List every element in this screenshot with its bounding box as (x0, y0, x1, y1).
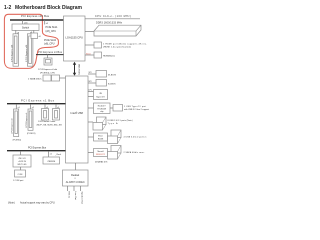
svg-text:Intel® Z68: Intel® Z68 (70, 111, 83, 115)
svg-text:1-2: 1-2 (4, 5, 11, 11)
wire: drop boxC (44, 104, 46, 109)
svg-text:PCIE Slot2: PCIE Slot2 (44, 39, 57, 42)
svg-text:(M2P_SB, M2M_SB)_SB: (M2P_SB, M2M_SB)_SB (37, 125, 63, 127)
wire: CPU to DVI box (85, 54, 94, 56)
svg-text:Line Out: Line Out (74, 192, 77, 201)
svg-text:Marvell: Marvell (97, 150, 104, 153)
svg-text:x8: x8 (39, 36, 41, 38)
wire: clock line (85, 18, 140, 20)
wire: chipset to audio (75, 163, 77, 170)
DVI port box (94, 52, 102, 58)
switch U1 (12, 24, 39, 30)
svg-text:DMI 20Gb/s: DMI 20Gb/s (78, 64, 80, 75)
red annotation loop (4, 14, 58, 68)
svg-text:(x8)_CPU: (x8)_CPU (46, 30, 57, 33)
wire: chipset to USB3 hub (88, 136, 94, 138)
svg-text:RTL8111E: RTL8111E (97, 108, 106, 110)
svg-text:Motherboard Block Diagram: Motherboard Block Diagram (15, 5, 83, 11)
wire: tick to x4 slot (47, 55, 49, 58)
svg-text:SPI: SPI (89, 72, 92, 74)
audio codec box (63, 170, 89, 186)
svg-text:Type A: Type A (108, 122, 119, 125)
USB 3.0 stack (108, 130, 122, 144)
svg-text:HDMI(Note): HDMI(Note) (103, 54, 115, 57)
wire: PCIe x16 bus to CPU (10, 19, 64, 21)
svg-text:iT8892E: iT8892E (47, 161, 56, 163)
svg-text:(x8)_CPU: (x8)_CPU (44, 43, 55, 46)
wire: x4 bus (36, 54, 64, 56)
svg-text:chip: chip (100, 111, 103, 113)
PCIe slot1 (11, 34, 19, 66)
super I/O box (13, 155, 31, 167)
svg-text:1 USB Type-C® port: 1 USB Type-C® port (124, 105, 146, 108)
PCIe slot2 (25, 34, 33, 66)
svg-text:_Clock: _Clock (54, 154, 61, 156)
wire: chipset to LAN chip (88, 107, 94, 109)
SATA connector A (43, 75, 51, 81)
USB3 hub box (94, 133, 108, 141)
wire: switch to slot1 (15, 30, 17, 33)
wire: CPU to HDMI box (85, 44, 94, 46)
wire: drop slotB (30, 104, 32, 109)
wire: chipset to superio2 (88, 91, 94, 93)
svg-text:(HDMI 1.4a specification): (HDMI 1.4a specification) (103, 46, 131, 49)
GSATA chip box (94, 149, 108, 157)
USB 2.0 stack (93, 117, 106, 130)
svg-text:SPI: SPI (89, 81, 92, 83)
RJ-45 box (113, 105, 123, 112)
svg-text:PCI Express Bus: PCI Express Bus (28, 147, 47, 150)
mini slot C (42, 109, 49, 121)
svg-text:Super I/O: Super I/O (96, 96, 105, 98)
mux box (31, 33, 38, 39)
bridge box (43, 157, 60, 164)
svg-text:1 PCI Express x1: 1 PCI Express x1 (26, 112, 28, 128)
svg-text:1 HDMI port (Note) supports 4K: 1 HDMI port (Note) supports 4K res. (103, 43, 147, 46)
wire: switch to slot2 (33, 30, 35, 33)
svg-text:x8: x8 (46, 23, 48, 25)
svg-text:Realtek®: Realtek® (98, 105, 106, 108)
wire: superio down (20, 167, 22, 170)
B_BIOS box (96, 80, 107, 87)
svg-text:1 PCI Express x4 slot: 1 PCI Express x4 slot (38, 68, 57, 71)
svg-text:(PCIEX4): (PCIEX4) (13, 139, 22, 141)
wire: chipset to USB stack (88, 121, 93, 123)
label slot1 leader (44, 20, 46, 25)
svg-text:(Note): (Note) (8, 201, 15, 204)
svg-text:iTE® I/O: iTE® I/O (18, 157, 26, 160)
svg-text:1 PCI Express x16: 1 PCI Express x16 (25, 44, 28, 62)
svg-text:ALC887 CODEC: ALC887 CODEC (66, 181, 85, 184)
svg-text:COM: COM (18, 174, 23, 176)
svg-text:PCI Express x16 Bus: PCI Express x16 Bus (21, 14, 50, 18)
svg-text:MIC In: MIC In (67, 192, 69, 199)
svg-text:1 M.2 Socket 3 conn.: 1 M.2 Socket 3 conn. (38, 120, 56, 123)
wire: chipset to B_BIOS (88, 82, 96, 84)
svg-text:with USB 3.2 Gen 2 support: with USB 3.2 Gen 2 support (124, 108, 149, 111)
COM box (15, 170, 26, 177)
M_BIOS box (96, 71, 107, 78)
svg-text:8 USB 2.0/1.1 ports (Note): 8 USB 2.0/1.1 ports (Note) (108, 119, 133, 122)
svg-text:WDT LED: WDT LED (18, 164, 28, 166)
wire: PCI bus (7, 150, 66, 152)
svg-text:1 PCI Express x16: 1 PCI Express x16 (11, 44, 14, 62)
svg-text:2 SATA 6Gb/s conn.: 2 SATA 6Gb/s conn. (124, 151, 145, 154)
svg-text:Actual support may vary by CPU: Actual support may vary by CPU. (20, 201, 56, 204)
LAN chip box (94, 103, 111, 114)
wire: chipset to M_BIOS (88, 73, 96, 75)
svg-text:B_BIOS: B_BIOS (108, 83, 116, 85)
wire: bus to switch tick (22, 20, 24, 24)
wire: drop boxD (55, 104, 57, 109)
chipset U3 (66, 76, 89, 163)
svg-text:(PCIEX4)_CPU: (PCIEX4)_CPU (40, 72, 55, 74)
svg-text:Realtek: Realtek (71, 174, 80, 177)
svg-text:PCI Express x1 Bus: PCI Express x1 Bus (21, 99, 55, 103)
svg-text:LGA1155 CPU: LGA1155 CPU (65, 36, 83, 40)
wire: LAN chip to port (110, 107, 113, 109)
svg-text:PCIE Slot1: PCIE Slot1 (46, 26, 59, 29)
svg-text:PCI Express x4 Bus: PCI Express x4 Bus (38, 51, 63, 54)
svg-text:(GSATA3 6/7): (GSATA3 6/7) (95, 160, 108, 163)
PCIe x1 slotB (26, 109, 33, 130)
svg-text:88SE9172: 88SE9172 (96, 154, 105, 156)
PCIe x1 slotA (11, 109, 18, 137)
wire: PCIe x1 bus (7, 103, 66, 105)
wire: chipset to GSATA (88, 152, 94, 154)
super I/O 2 box (94, 90, 108, 100)
SATA connector B (52, 75, 60, 81)
svg-text:EJ168: EJ168 (98, 139, 103, 141)
wire: audio drop3 (80, 186, 82, 191)
wire: drop slotA (15, 104, 17, 109)
svg-text:1 PCI Express x4: 1 PCI Express x4 (11, 118, 13, 134)
HDMI port box (94, 42, 102, 48)
svg-text:DDR3 1600/1333 MHz: DDR3 1600/1333 MHz (96, 22, 123, 25)
svg-text:Etron: Etron (98, 135, 103, 138)
wire: audio drop1 (67, 186, 69, 191)
PCIe x4 slot (44, 58, 52, 65)
wire: CPU to memory (85, 31, 94, 33)
wire: drop superio (20, 151, 22, 155)
wire: drop bridge (48, 151, 50, 157)
mini slot D (53, 109, 60, 121)
svg-text:(PCIEX1): (PCIEX1) (27, 133, 36, 135)
svg-text:CPU CLK+/- (100 MHz): CPU CLK+/- (100 MHz) (95, 15, 131, 18)
svg-text:Switch: Switch (22, 26, 30, 29)
memory slab (94, 25, 141, 36)
SATA stack (108, 146, 122, 160)
wire: SATA to chipset (60, 77, 66, 79)
svg-text:M_BIOS: M_BIOS (108, 74, 116, 76)
CPU U2 (64, 16, 86, 61)
svg-text:+5V/3.3V: +5V/3.3V (18, 161, 27, 163)
svg-text:2 SATA 6Gb/s: 2 SATA 6Gb/s (28, 77, 42, 80)
svg-text:1 COM port: 1 COM port (13, 179, 24, 182)
svg-text:4 USB 3.0/2.0 ports 1: 4 USB 3.0/2.0 ports 1 (124, 135, 148, 138)
DMI arrow (73, 62, 80, 76)
wire: audio drop2 (73, 186, 75, 191)
svg-text:Speaker Out: Speaker Out (80, 192, 83, 205)
